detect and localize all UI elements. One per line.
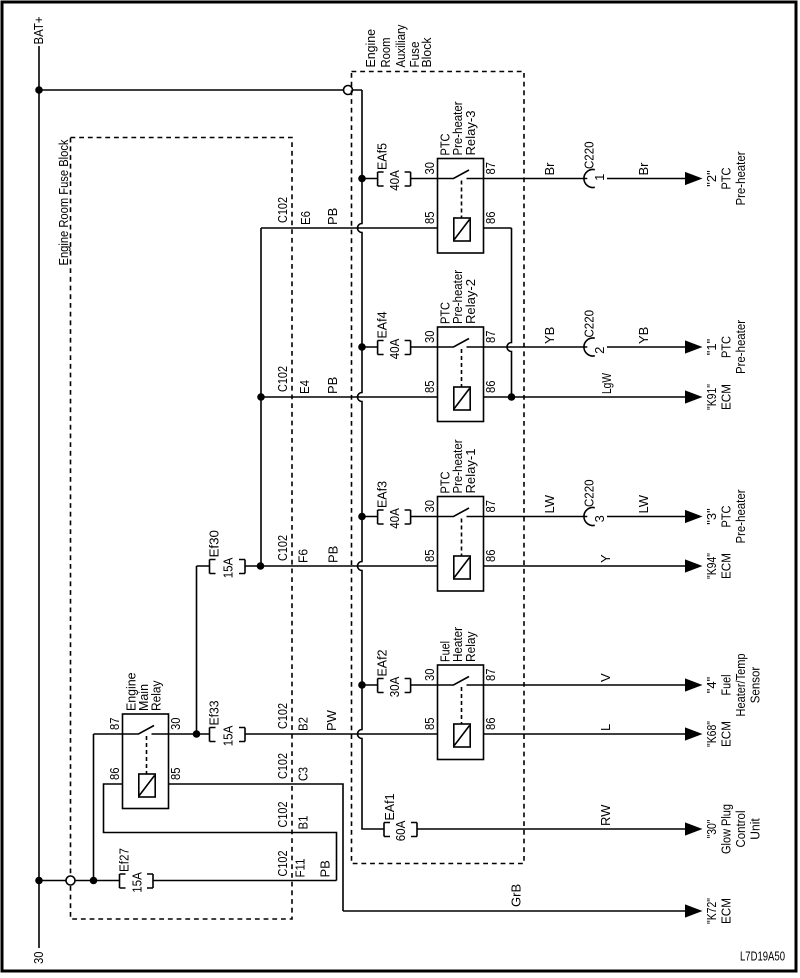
svg-text:Block: Block xyxy=(419,37,434,67)
svg-text:Engine: Engine xyxy=(363,29,378,68)
svg-text:PW: PW xyxy=(324,709,339,731)
svg-text:PTC: PTC xyxy=(719,168,734,190)
svg-text:E4: E4 xyxy=(297,380,312,394)
svg-text:Pre-heater: Pre-heater xyxy=(733,151,748,206)
wire engine relay pin 86 to C102 B1 xyxy=(104,784,337,881)
svg-text:"30": "30" xyxy=(704,819,719,838)
Engine Room Fuse Block dashed box xyxy=(71,138,293,920)
svg-text:"4": "4" xyxy=(704,676,719,693)
svg-text:YB: YB xyxy=(542,327,557,344)
svg-text:YB: YB xyxy=(636,327,651,344)
fuse EAf2 30A xyxy=(362,684,438,686)
svg-text:PB: PB xyxy=(318,860,333,877)
svg-text:2: 2 xyxy=(592,347,607,354)
svg-text:Heater/Temp: Heater/Temp xyxy=(733,654,748,717)
svg-text:C102: C102 xyxy=(275,535,290,561)
svg-text:F11: F11 xyxy=(293,859,308,878)
svg-text:85: 85 xyxy=(422,550,437,563)
svg-text:Sensor: Sensor xyxy=(748,666,763,703)
svg-text:86: 86 xyxy=(483,550,498,563)
fuse Ef27 15A xyxy=(120,874,154,888)
svg-text:PTC: PTC xyxy=(719,336,734,358)
wire: auxiliary fuse block bus with crossover hops xyxy=(358,90,385,829)
svg-text:Control: Control xyxy=(733,810,748,847)
wire GrB to K72 ECM xyxy=(343,910,685,912)
svg-text:EAf5: EAf5 xyxy=(375,143,390,170)
svg-text:C102: C102 xyxy=(275,197,290,223)
svg-text:86: 86 xyxy=(483,718,498,731)
svg-text:PB: PB xyxy=(325,377,340,394)
svg-text:15A: 15A xyxy=(129,872,144,893)
svg-text:Ef30: Ef30 xyxy=(207,530,222,558)
svg-text:C220: C220 xyxy=(582,310,597,338)
svg-text:B1: B1 xyxy=(296,816,311,830)
svg-text:Relay-2: Relay-2 xyxy=(463,279,478,324)
svg-text:86: 86 xyxy=(483,381,498,394)
svg-text:L7D19A50: L7D19A50 xyxy=(740,950,785,964)
fuse Ef30 15A on C102 F6 PB wire xyxy=(197,565,438,567)
svg-text:Relay: Relay xyxy=(463,631,478,662)
arrow to K91 ECM xyxy=(685,390,703,403)
junction dot C102 F6 xyxy=(257,562,265,570)
svg-text:Ef27: Ef27 xyxy=(117,848,132,872)
fuse EAf5 40A xyxy=(362,178,438,180)
arrow to K94 ECM xyxy=(685,559,703,572)
svg-text:30: 30 xyxy=(422,500,437,513)
svg-text:BAT+: BAT+ xyxy=(31,17,46,45)
svg-text:C220: C220 xyxy=(582,480,597,508)
svg-text:Relay: Relay xyxy=(149,680,164,711)
connector C220 pin 3 xyxy=(584,508,595,526)
svg-text:"K68": "K68" xyxy=(704,721,719,747)
svg-text:87: 87 xyxy=(483,331,498,344)
svg-text:"K94": "K94" xyxy=(704,553,719,579)
wire fuel relay pin 86 output L to K68 ECM xyxy=(484,733,686,735)
svg-text:"K72": "K72" xyxy=(704,898,719,924)
relay PTC Pre-heater Relay-2 xyxy=(438,327,484,422)
wire BAT+ to Ef27 and C102 F11 PB xyxy=(39,880,337,882)
svg-text:GrB: GrB xyxy=(509,884,524,907)
wire relay-2 pin 87 output YB xyxy=(484,346,686,348)
svg-text:"3": "3" xyxy=(704,508,719,525)
svg-text:EAf1: EAf1 xyxy=(382,794,397,821)
svg-text:LW: LW xyxy=(542,494,557,513)
fuse EAf3 40A xyxy=(362,516,438,518)
wire fuel relay pin 87 output V xyxy=(484,684,686,686)
svg-text:ECM: ECM xyxy=(719,553,734,579)
junction dot engine relay 30 feed xyxy=(193,730,201,738)
svg-text:Glow Plug: Glow Plug xyxy=(719,804,734,854)
relay Engine Main Relay xyxy=(123,714,169,809)
svg-text:30: 30 xyxy=(422,331,437,344)
svg-text:15A: 15A xyxy=(220,725,235,746)
wire relay-1 pin 87 output LW xyxy=(484,516,686,518)
svg-text:EAf3: EAf3 xyxy=(375,481,390,508)
wire C102 E4 PB to relay-2 pin 85 xyxy=(261,396,438,398)
svg-text:30A: 30A xyxy=(387,676,402,697)
svg-text:3: 3 xyxy=(592,515,607,522)
svg-text:Pre-heater: Pre-heater xyxy=(733,319,748,374)
svg-text:87: 87 xyxy=(483,162,498,175)
svg-text:Engine Room Fuse Block: Engine Room Fuse Block xyxy=(56,139,71,265)
svg-text:C220: C220 xyxy=(582,142,597,170)
connector C220 pin 1 xyxy=(584,170,595,188)
svg-text:ECM: ECM xyxy=(719,721,734,747)
connector circle on fuse block edge xyxy=(66,876,75,885)
svg-text:40A: 40A xyxy=(387,508,402,529)
svg-text:LW: LW xyxy=(636,494,651,513)
arrow to K72 ECM xyxy=(685,904,703,917)
wire relay-3 pin 86 down to LgW net xyxy=(484,228,512,397)
svg-text:30: 30 xyxy=(422,162,437,175)
svg-text:LgW: LgW xyxy=(599,372,614,394)
svg-text:Y: Y xyxy=(598,554,613,563)
svg-text:C3: C3 xyxy=(296,767,311,781)
svg-text:C102: C102 xyxy=(275,703,290,729)
svg-text:86: 86 xyxy=(483,212,498,225)
fuse EAf4 40A xyxy=(362,346,438,348)
arrow to "2" PTC Pre-heater xyxy=(685,172,703,185)
wire relay-2 pin 86 output LgW to K91 ECM xyxy=(484,396,686,398)
svg-text:87: 87 xyxy=(107,718,122,731)
svg-text:Fuel: Fuel xyxy=(719,674,734,695)
svg-text:87: 87 xyxy=(483,500,498,513)
svg-text:PB: PB xyxy=(325,208,340,225)
svg-text:Br: Br xyxy=(542,162,557,176)
svg-text:40A: 40A xyxy=(387,338,402,359)
svg-text:Ef33: Ef33 xyxy=(207,701,222,726)
wire from F6 net down to engine relay pin 30 xyxy=(196,566,198,734)
junction dot at BAT+ feed xyxy=(35,86,43,94)
svg-text:1: 1 xyxy=(592,174,607,181)
wire engine relay pin 87 to BAT+ feed xyxy=(94,734,123,881)
fuse Ef33 15A on C102 B2 PW wire xyxy=(168,733,438,735)
svg-text:85: 85 xyxy=(422,718,437,731)
svg-text:C102: C102 xyxy=(275,851,290,877)
svg-text:30: 30 xyxy=(168,718,183,731)
svg-text:Unit: Unit xyxy=(748,818,763,840)
svg-text:Br: Br xyxy=(636,162,651,176)
svg-text:E6: E6 xyxy=(298,211,313,225)
arrow to "3" PTC Pre-heater xyxy=(685,510,703,523)
svg-text:ECM: ECM xyxy=(719,384,734,410)
wire C102 E6 PB to relay-3 pin 85 xyxy=(261,227,438,229)
svg-text:V: V xyxy=(598,673,613,682)
junction dot at Ef27 feed xyxy=(35,877,43,885)
svg-text:Room: Room xyxy=(378,38,393,68)
svg-text:Relay-3: Relay-3 xyxy=(463,111,478,156)
svg-text:60A: 60A xyxy=(393,820,408,841)
svg-text:C102: C102 xyxy=(275,753,290,779)
svg-text:85: 85 xyxy=(422,212,437,225)
relay PTC Pre-heater Relay-1 xyxy=(438,497,484,592)
svg-text:85: 85 xyxy=(168,768,183,781)
arrow to "1" PTC Pre-heater xyxy=(685,340,703,353)
arrow to "4" Fuel Heater/Temp Sensor xyxy=(685,678,703,691)
svg-text:Auxiliary: Auxiliary xyxy=(393,24,408,67)
junction dot C102 E4 xyxy=(257,393,265,401)
fuse EAf1 60A xyxy=(417,828,685,830)
svg-text:85: 85 xyxy=(422,381,437,394)
wire: BAT+ feed to auxiliary fuse block xyxy=(39,89,362,91)
svg-text:15A: 15A xyxy=(220,557,235,578)
svg-text:"1": "1" xyxy=(704,338,719,355)
svg-text:"2": "2" xyxy=(704,170,719,187)
svg-text:RW: RW xyxy=(598,804,613,826)
arrow to "30" Glow Plug Control Unit xyxy=(685,822,703,835)
svg-text:ECM: ECM xyxy=(719,898,734,924)
relay PTC Pre-heater Relay-3 xyxy=(438,159,484,254)
relay Fuel Heater Relay xyxy=(438,665,484,760)
svg-text:C102: C102 xyxy=(275,366,290,392)
svg-text:30: 30 xyxy=(422,669,437,682)
svg-text:EAf4: EAf4 xyxy=(375,312,390,339)
svg-text:L: L xyxy=(598,724,613,731)
svg-text:86: 86 xyxy=(107,768,122,781)
svg-text:B2: B2 xyxy=(296,717,311,731)
wire: left power line (net 30) xyxy=(38,46,40,948)
wire: PB distribution line xyxy=(260,228,262,566)
wire engine relay pin 85 C102 C3 down to GrB net xyxy=(169,784,344,911)
svg-text:F6: F6 xyxy=(296,549,311,563)
connector circle at auxiliary fuse block feed xyxy=(344,86,353,95)
svg-text:C102: C102 xyxy=(275,802,290,828)
wire relay-1 pin 86 output Y to K94 ECM xyxy=(484,565,686,567)
wire relay-3 pin 87 output Br xyxy=(484,178,686,180)
svg-text:87: 87 xyxy=(483,669,498,682)
svg-text:Relay-1: Relay-1 xyxy=(463,449,478,494)
connector C220 pin 2 xyxy=(584,338,595,356)
Engine Room Auxiliary Fuse Block dashed box xyxy=(352,72,525,864)
arrow to K68 ECM xyxy=(685,727,703,740)
svg-text:PTC: PTC xyxy=(719,506,734,528)
svg-text:PB: PB xyxy=(326,546,341,563)
svg-text:Pre-heater: Pre-heater xyxy=(733,489,748,544)
svg-text:"K91": "K91" xyxy=(704,384,719,410)
svg-text:40A: 40A xyxy=(387,170,402,191)
svg-text:30: 30 xyxy=(31,952,46,965)
svg-text:EAf2: EAf2 xyxy=(375,650,390,677)
